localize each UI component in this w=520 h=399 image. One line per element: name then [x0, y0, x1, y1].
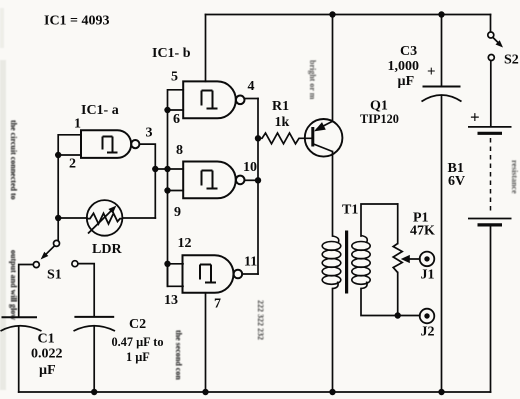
node pin9	[164, 187, 170, 193]
svg-text:IC1- b: IC1- b	[152, 46, 191, 61]
potentiometer P1	[393, 244, 402, 273]
wire output column	[257, 99, 259, 275]
jack J2	[420, 309, 435, 324]
node C3 rail	[438, 11, 444, 17]
wire pin 7 to bottom rail	[205, 293, 207, 392]
node pin10	[255, 177, 261, 183]
svg-text:6: 6	[173, 112, 180, 127]
wire C1 to bottom rail	[18, 326, 20, 392]
svg-text:the second con: the second con	[174, 330, 183, 380]
node T1 rail	[329, 389, 335, 395]
node P1 bottom	[395, 312, 401, 318]
gate IC1-b first (pins 5,6,4)	[183, 81, 244, 118]
wire P1 top lead	[397, 204, 399, 244]
svg-text:+: +	[427, 64, 436, 80]
wire T1 secondary top to P1	[361, 204, 398, 236]
svg-text:12: 12	[178, 236, 192, 251]
wire P1 bottom lead	[397, 273, 399, 316]
svg-text:T1: T1	[342, 203, 358, 218]
svg-text:the circuit connected to: the circuit connected to	[9, 120, 18, 200]
svg-text:5: 5	[171, 70, 178, 85]
wire S1 left contact to C1	[19, 265, 34, 318]
node pin8 column	[164, 166, 170, 172]
wire pin 9 stub	[168, 190, 184, 192]
svg-text:bright or m: bright or m	[308, 60, 317, 100]
transistor Q1	[305, 119, 343, 157]
gate IC1-b second (pins 8,9,10)	[183, 162, 244, 199]
svg-text:µF: µF	[398, 74, 415, 89]
wire pin 8 stub	[155, 168, 183, 170]
wire T1 secondary bottom to J2	[361, 289, 420, 316]
wire C3 to bottom rail	[441, 96, 443, 393]
node pin12	[164, 261, 170, 267]
svg-text:0.47 µF to: 0.47 µF to	[112, 335, 164, 349]
svg-text:C3: C3	[400, 44, 417, 59]
wire IC1-a output pin 3	[139, 144, 155, 218]
wire pin 11 output	[242, 273, 258, 275]
jack J1	[420, 252, 435, 267]
node IC1-a inputs	[55, 152, 61, 158]
wire Q1 collector	[332, 15, 334, 122]
svg-text:11: 11	[244, 255, 257, 270]
svg-text:1,000: 1,000	[388, 59, 420, 74]
wire C2 to bottom rail	[93, 326, 95, 392]
svg-text:IC1 = 4093: IC1 = 4093	[44, 14, 110, 29]
svg-text:J1: J1	[421, 268, 435, 283]
LDR	[87, 200, 123, 236]
svg-text:6V: 6V	[448, 174, 465, 189]
transformer T1	[322, 231, 370, 294]
wire LDR right lead	[123, 217, 156, 219]
gate IC1-b third (pins 12,13,11)	[183, 255, 243, 293]
node gate1 bracket	[164, 107, 170, 113]
wire IC1-a inputs down to LDR node	[57, 155, 59, 218]
wire LDR node to S1	[57, 218, 59, 240]
wire pin 4 output	[245, 98, 259, 100]
capacitor C2	[74, 317, 116, 331]
svg-text:µF: µF	[39, 363, 56, 378]
wire T1 primary to bottom rail	[332, 289, 334, 393]
svg-text:3: 3	[146, 125, 153, 140]
wire top rail to S2	[490, 15, 492, 33]
svg-text:output and will glow: output and will glow	[9, 250, 18, 320]
wire top rail	[206, 14, 491, 16]
svg-text:10: 10	[243, 160, 257, 175]
svg-text:1 µF: 1 µF	[126, 350, 150, 364]
svg-text:47K: 47K	[410, 224, 435, 239]
svg-text:7: 7	[214, 297, 221, 312]
svg-text:13: 13	[164, 293, 178, 308]
op-amp/gate IC1-a	[81, 130, 139, 158]
switch S1	[33, 240, 78, 267]
battery B1	[468, 127, 512, 225]
switch S2	[488, 32, 499, 61]
svg-text:S2: S2	[504, 53, 519, 68]
svg-text:4: 4	[248, 79, 255, 94]
svg-text:9: 9	[174, 205, 181, 220]
svg-text:S1: S1	[47, 267, 62, 282]
P1 wiper arrow	[401, 255, 410, 263]
svg-text:8: 8	[176, 143, 183, 158]
wire bottom rail	[19, 391, 491, 393]
capacitor C1	[1, 317, 42, 331]
svg-text:+: +	[470, 108, 480, 127]
wire LDR left lead	[58, 217, 87, 219]
svg-text:C2: C2	[129, 317, 146, 332]
svg-text:1k: 1k	[275, 115, 290, 130]
wire gate3 input bracket pins 12,13	[168, 264, 184, 287]
svg-text:C1: C1	[38, 332, 55, 347]
svg-text:J2: J2	[421, 325, 435, 340]
svg-text:LDR: LDR	[92, 242, 122, 257]
wire input column	[167, 110, 169, 286]
wire S1 right contact to C2	[78, 264, 94, 317]
svg-text:222 322 232: 222 322 232	[256, 300, 265, 340]
wire gate IC1-b top entry	[205, 15, 207, 82]
svg-text:R1: R1	[272, 99, 289, 114]
svg-text:2: 2	[69, 157, 76, 172]
node C3 bottom rail	[438, 389, 444, 395]
svg-text:1: 1	[74, 117, 81, 132]
node Q1 collector rail	[329, 11, 335, 17]
wire battery to bottom rail	[490, 226, 492, 392]
resistor R1	[258, 133, 313, 144]
wire pin 10 output	[245, 179, 259, 181]
node C2 rail	[91, 389, 97, 395]
svg-text:IC1- a: IC1- a	[81, 103, 119, 118]
wire C3 top	[441, 15, 443, 87]
node R1	[255, 135, 261, 141]
node pin7 rail	[202, 389, 208, 395]
node pin3/pin8	[152, 166, 158, 172]
wire S2 to battery	[490, 61, 492, 127]
wire J1 wiper lead	[404, 258, 420, 260]
svg-text:TIP120: TIP120	[360, 112, 399, 126]
wire IC1-a input bracket	[58, 135, 81, 155]
svg-text:0.022: 0.022	[31, 347, 63, 362]
capacitor C3	[422, 87, 462, 102]
node LDR left	[55, 215, 61, 221]
wire Q1 emitter to T1	[332, 152, 334, 237]
wire gate1 input bracket pins 5,6	[168, 90, 184, 110]
svg-text:resistance: resistance	[510, 160, 519, 194]
